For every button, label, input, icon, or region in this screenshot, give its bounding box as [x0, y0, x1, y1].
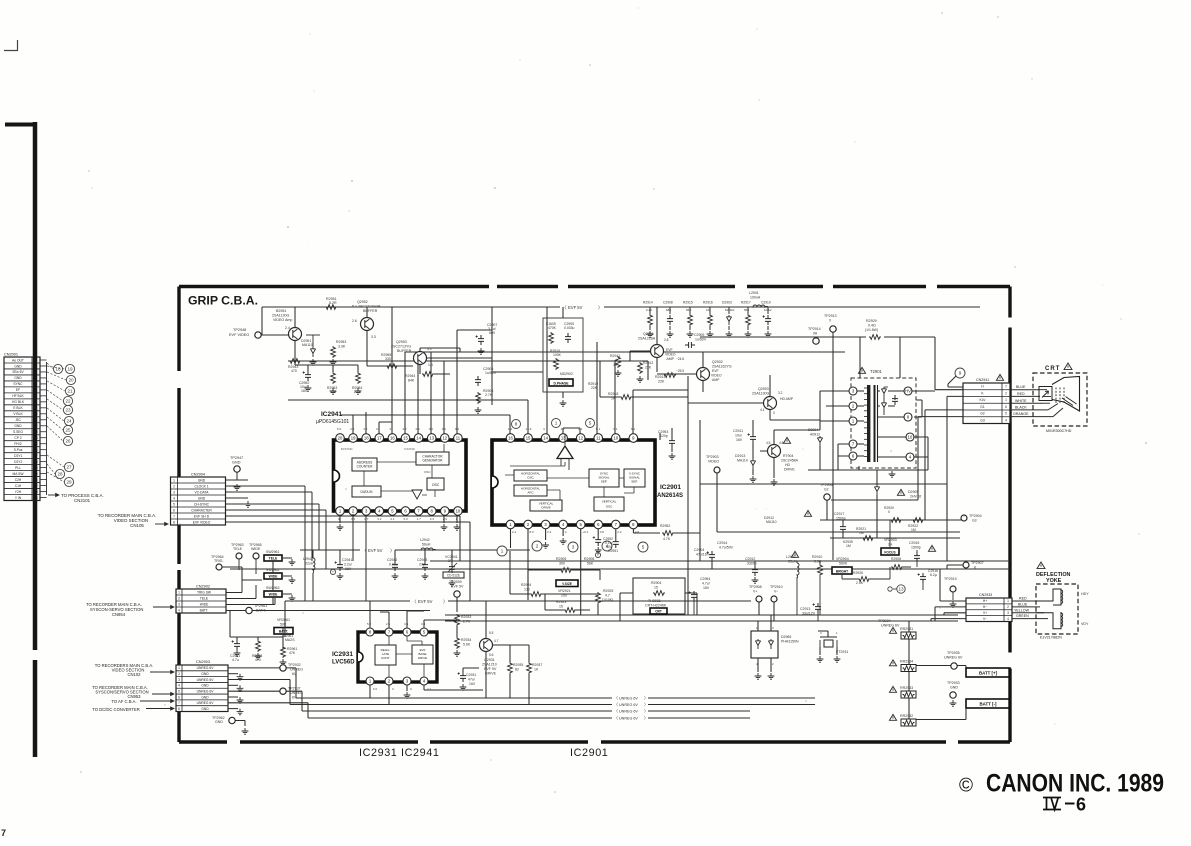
svg-text:UNREG 6V: UNREG 6V — [619, 697, 638, 701]
svg-text:BATT.: BATT. — [279, 629, 289, 633]
resistor R2952 4.7K — [662, 531, 674, 536]
svg-text:5.0: 5.0 — [404, 517, 409, 521]
CRT wire BLACK — [1010, 409, 1048, 411]
ground — [337, 573, 344, 579]
IC2931 bottom pin 2 — [385, 677, 393, 685]
wire — [456, 626, 458, 637]
sheet number IV-6 — [1043, 798, 1061, 810]
svg-text:19: 19 — [351, 436, 356, 441]
svg-text:S.Pos: S.Pos — [14, 448, 23, 452]
svg-text:〉: 〉 — [644, 709, 648, 714]
svg-text:GND: GND — [215, 720, 223, 724]
svg-text:〉: 〉 — [644, 702, 648, 707]
svg-text:GENERATOR: GENERATOR — [423, 459, 444, 463]
svg-text:20: 20 — [338, 436, 343, 441]
svg-text:22K: 22K — [591, 386, 598, 390]
wire RR chain — [909, 621, 966, 720]
svg-text:R2929: R2929 — [866, 319, 877, 323]
wire — [294, 307, 296, 328]
wire IC2941 pin3 drop — [365, 515, 367, 601]
capacitor C2908 — [669, 307, 671, 314]
svg-text:DRIVE: DRIVE — [485, 672, 497, 676]
svg-text:RED: RED — [1017, 392, 1025, 396]
svg-text:1M: 1M — [911, 528, 916, 532]
svg-text:R2918: R2918 — [608, 392, 618, 396]
svg-text:CSY1: CSY1 — [14, 454, 23, 458]
warning triangle — [791, 551, 798, 557]
wire — [717, 473, 960, 532]
svg-text:FT2931: FT2931 — [836, 650, 848, 654]
wire GND stub — [228, 696, 238, 698]
IC2931 top pin 6 — [403, 628, 411, 636]
IC2941 package outline — [334, 440, 467, 511]
svg-text:MA SW: MA SW — [13, 472, 25, 476]
ground — [237, 685, 244, 691]
warning triangle — [928, 545, 935, 551]
wire CN2941 feeds — [831, 396, 963, 561]
svg-text:4.1: 4.1 — [760, 408, 765, 412]
svg-text:24: 24 — [66, 419, 72, 424]
IC2941 pin 13 — [427, 434, 436, 443]
bus UNREG 6V lines — [296, 697, 815, 699]
svg-text:1: 1 — [178, 590, 180, 594]
thermistor TH2931 CRT-H2246K — [633, 578, 685, 614]
wire HV line — [700, 337, 935, 386]
svg-text:EVF SH D: EVF SH D — [194, 514, 210, 518]
svg-text:CN102: CN102 — [127, 672, 141, 677]
IC2941 pin 5 — [388, 507, 397, 516]
ground — [752, 577, 759, 583]
wire transformer HV output — [912, 386, 963, 391]
IC2941 pin 18 — [362, 434, 371, 443]
wire vertical x712 — [711, 561, 713, 569]
svg-text:10u/: 10u/ — [735, 434, 742, 438]
transformer T2901 outline — [851, 378, 916, 468]
svg-text:R2908: R2908 — [891, 557, 901, 561]
svg-text:2.7: 2.7 — [403, 427, 408, 431]
svg-text:2SC2458A: 2SC2458A — [781, 459, 799, 463]
svg-text:IC2901: IC2901 — [660, 484, 681, 491]
svg-text:µPD6145G101: µPD6145G101 — [316, 419, 349, 425]
svg-text:DRIVE: DRIVE — [541, 506, 550, 510]
svg-text:TP2919: TP2919 — [944, 577, 957, 581]
svg-text:3.4: 3.4 — [404, 622, 409, 626]
wire — [947, 565, 963, 569]
IC2901 block HORIZONTAL AFC — [514, 485, 547, 496]
wire UNREG row 3 — [228, 680, 290, 705]
wire CN2933 feeds — [931, 569, 966, 621]
transformer secondary diodes — [881, 387, 886, 397]
wire vertical x700 — [699, 420, 701, 561]
ground — [647, 331, 654, 337]
IC2941 pin 3 — [362, 507, 371, 516]
wire — [238, 559, 240, 570]
capacitor C2952 10u 16V — [305, 371, 311, 381]
svg-text:BATT [+]: BATT [+] — [979, 671, 998, 676]
svg-text:0.1: 0.1 — [416, 427, 421, 431]
wire vertical x600 — [599, 361, 601, 397]
wire transformer left feeds — [820, 391, 849, 470]
svg-text:VIDEO: VIDEO — [708, 460, 719, 464]
svg-text:Y IN: Y IN — [15, 496, 22, 500]
svg-text:TP2937: TP2937 — [288, 687, 301, 691]
svg-text:23: 23 — [65, 408, 71, 413]
svg-text:50V: 50V — [489, 331, 496, 335]
svg-text:CN2904: CN2904 — [191, 473, 205, 477]
svg-text:100uH: 100uH — [750, 296, 761, 300]
ground — [667, 331, 674, 337]
svg-text:TO DC/DC CONVERTER: TO DC/DC CONVERTER — [92, 707, 140, 712]
IC2901 bottom pin 3 — [541, 520, 550, 529]
IC2901 top pin 14 — [541, 434, 550, 443]
svg-text:C2912: C2912 — [745, 557, 755, 561]
CRT wire WHITE — [1010, 402, 1043, 404]
IC2901 top pin 16 — [506, 434, 515, 443]
IC2941 block DATA IN — [352, 486, 381, 497]
svg-text:22K: 22K — [645, 366, 652, 370]
svg-text:GND: GND — [232, 461, 241, 465]
svg-text:8: 8 — [178, 707, 180, 711]
ground — [765, 331, 772, 337]
IC2901 sync amp triangle — [557, 446, 573, 459]
svg-text:2.7K: 2.7K — [485, 393, 493, 397]
svg-text:5: 5 — [1005, 412, 1007, 416]
IC2941 buffer triangle — [412, 490, 422, 499]
IC2931 top pin 8 — [366, 628, 374, 636]
svg-text:16V: 16V — [736, 438, 743, 442]
IC2901 block VERTICAL DRIVE — [530, 500, 562, 511]
switch wiring — [272, 561, 274, 605]
svg-text:〈: 〈 — [412, 599, 417, 604]
svg-text:VC-DATA: VC-DATA — [195, 490, 210, 494]
annotation bubble 5 — [586, 419, 595, 428]
svg-text:CHARACTER: CHARACTER — [191, 508, 212, 512]
left margin bar — [5, 123, 37, 127]
svg-text:2SA1226A: 2SA1226A — [638, 337, 656, 341]
ground — [460, 684, 467, 690]
svg-text:PH/2: PH/2 — [14, 442, 21, 446]
svg-text:D2905: D2905 — [908, 490, 918, 494]
svg-text:1: 1 — [1007, 599, 1009, 603]
wire — [817, 613, 819, 621]
svg-text:EVF VIDEO: EVF VIDEO — [229, 333, 249, 337]
wire — [820, 446, 838, 470]
svg-text:6: 6 — [178, 695, 180, 699]
resistor R2954 2.7K — [356, 372, 361, 384]
svg-text:MA2S: MA2S — [285, 638, 295, 642]
wire — [340, 550, 452, 563]
yoke wire GREEN — [1012, 618, 1048, 620]
svg-text:300: 300 — [559, 562, 565, 566]
svg-text:UNREG 6V: UNREG 6V — [881, 624, 900, 628]
warning triangle — [1064, 363, 1072, 370]
svg-text:CN2941: CN2941 — [976, 378, 989, 382]
annotation bubble 1 — [497, 546, 507, 556]
transformer pin 9 — [904, 413, 912, 421]
svg-text:UNREG 6V: UNREG 6V — [619, 717, 638, 721]
svg-text:13: 13 — [898, 587, 904, 592]
svg-text:CN105: CN105 — [130, 523, 144, 528]
transformer pin 7 — [849, 440, 857, 448]
wire CHARACTER drop — [325, 510, 327, 569]
annotation bubble 8 — [512, 420, 521, 429]
svg-text:VIDEO Amp: VIDEO Amp — [273, 318, 292, 322]
svg-text:R2934: R2934 — [461, 638, 471, 642]
wire UNREG row 1 — [228, 668, 296, 698]
svg-text:22uH: 22uH — [305, 562, 314, 566]
svg-text:5: 5 — [178, 689, 180, 693]
svg-text:0.1: 0.1 — [442, 427, 447, 431]
svg-text:G3: G3 — [972, 519, 977, 523]
svg-text:BATT [-]: BATT [-] — [980, 702, 998, 707]
ground — [454, 650, 461, 656]
warning triangle — [804, 510, 811, 516]
svg-text:MA110: MA110 — [737, 459, 748, 463]
wire — [952, 592, 954, 600]
svg-text:84K: 84K — [408, 379, 415, 383]
IC2901 bottom pin 6 — [594, 520, 603, 529]
svg-text:2.8: 2.8 — [664, 338, 669, 342]
test point TP2961 BATT — [246, 607, 252, 613]
svg-text:11: 11 — [456, 436, 461, 441]
IC2931 top pin 5 — [420, 628, 428, 636]
ground — [245, 501, 252, 507]
svg-text:R2952: R2952 — [660, 524, 670, 528]
wire rail y372 — [492, 371, 543, 373]
transistor Q2931 2SA1210 EVF 5V DRIVE — [480, 639, 493, 652]
svg-text:TP2914: TP2914 — [808, 327, 821, 331]
svg-text:12: 12 — [442, 436, 447, 441]
svg-text:C2904: C2904 — [694, 548, 704, 552]
wire y484 rail — [700, 484, 947, 520]
IC2941 block CHARACTER GENERATOR — [416, 452, 449, 465]
svg-text:S.SEO: S.SEO — [13, 430, 24, 434]
svg-text:5: 5 — [173, 502, 175, 506]
svg-text:VR2904: VR2904 — [836, 557, 849, 561]
svg-text:〈: 〈 — [614, 716, 618, 721]
wire IC2941 bottom pin drops — [340, 514, 457, 523]
ground — [595, 547, 602, 553]
svg-text:10: 10 — [908, 435, 913, 440]
svg-text:2: 2 — [1007, 605, 1009, 609]
wire vertical x262 — [261, 307, 263, 335]
svg-text:〉: 〉 — [443, 599, 448, 604]
CRT electron gun — [1039, 387, 1052, 401]
ground — [834, 656, 841, 662]
IC2941 pin 2 — [349, 507, 358, 516]
IC2931 bottom pin 3 — [403, 677, 411, 685]
svg-text:100K: 100K — [553, 353, 562, 357]
wire — [693, 601, 695, 615]
svg-text:2.7: 2.7 — [561, 427, 566, 431]
svg-text:6.2µ: 6.2µ — [930, 573, 937, 577]
svg-text:0: 0 — [888, 510, 890, 514]
wire rail y352 — [405, 351, 845, 353]
svg-text:R2937: R2937 — [532, 663, 542, 667]
svg-text:GND: GND — [201, 707, 209, 711]
svg-text:15: 15 — [403, 436, 408, 441]
resistor R2933 2.7K — [455, 614, 460, 626]
capacitor C2942 0.01u — [392, 561, 398, 571]
svg-text:27p: 27p — [419, 563, 425, 567]
svg-text:HG BLK: HG BLK — [12, 400, 25, 404]
svg-text:C2914: C2914 — [717, 541, 727, 545]
svg-text:26: 26 — [65, 439, 71, 444]
svg-text:LVC56D: LVC56D — [332, 660, 355, 666]
svg-text:2: 2 — [178, 596, 180, 600]
svg-text:4.3: 4.3 — [350, 427, 355, 431]
svg-text:YOKE: YOKE — [1046, 578, 1062, 584]
svg-text:3.3: 3.3 — [430, 517, 435, 521]
svg-text:15: 15 — [559, 605, 563, 609]
svg-text:GREEN: GREEN — [1016, 614, 1029, 618]
CN2904 row wires — [226, 479, 249, 481]
capacitor C2910 — [767, 307, 769, 314]
svg-text:4: 4 — [1007, 617, 1009, 621]
svg-text:UNREG 6V: UNREG 6V — [619, 703, 638, 707]
wire — [657, 352, 703, 392]
wire — [230, 611, 283, 650]
svg-text:〉: 〉 — [644, 696, 648, 701]
svg-text:3.2: 3.2 — [377, 517, 382, 521]
wire vertical x492 — [491, 307, 493, 405]
svg-text:C2911: C2911 — [733, 429, 743, 433]
ground — [726, 331, 733, 337]
svg-text:TP2908: TP2908 — [749, 585, 762, 589]
ground — [560, 400, 567, 406]
svg-text:V−: V− — [983, 617, 987, 621]
svg-text:YELLOW: YELLOW — [1014, 608, 1030, 612]
svg-text:3.3K: 3.3K — [338, 345, 346, 349]
svg-text:R2935: R2935 — [513, 663, 523, 667]
IC2931 package outline — [358, 632, 437, 682]
svg-text:©: © — [959, 776, 973, 797]
IC2931 internal wiring — [389, 636, 424, 677]
svg-text:V BLK: V BLK — [13, 412, 23, 416]
resistor R2911 1K — [616, 356, 621, 368]
svg-text:0: 0 — [773, 411, 775, 415]
note TO PROCESS C.B.A. — [48, 494, 59, 496]
wire — [830, 520, 960, 538]
svg-text:33uH: 33uH — [788, 560, 797, 564]
svg-text:VIDEO: VIDEO — [711, 374, 722, 378]
battery terminal BATT - — [966, 699, 1010, 708]
svg-text:GND: GND — [950, 686, 958, 690]
svg-text:V+: V+ — [983, 611, 987, 615]
svg-text:CH-SYNC: CH-SYNC — [194, 502, 210, 506]
wire — [832, 332, 834, 560]
svg-text:VR2921: VR2921 — [558, 589, 571, 593]
IC2901 top pin 13 — [559, 434, 568, 443]
ground — [687, 331, 694, 337]
svg-text:470: 470 — [255, 658, 261, 662]
wire IC2941 pin2 drop — [352, 515, 354, 561]
svg-text:28: 28 — [57, 472, 63, 477]
svg-text:Q2902: Q2902 — [712, 360, 723, 364]
svg-text:SEP.: SEP. — [601, 480, 608, 484]
svg-text:C2942: C2942 — [387, 558, 397, 562]
resistor R2934 5.6K — [455, 637, 460, 649]
svg-text:560: 560 — [744, 308, 749, 312]
potentiometer VR2921 250 V.SIZE — [556, 580, 578, 587]
IC2941 pin 9 — [441, 507, 450, 516]
left margin bar overlay — [33, 357, 38, 500]
svg-text:M.SYNC: M.SYNC — [341, 447, 354, 451]
IC2901 block HORIZONTAL OSC — [514, 470, 547, 481]
svg-text:5.0: 5.0 — [337, 427, 342, 431]
svg-text:W/DE: W/DE — [269, 592, 279, 596]
svg-text:1.2: 1.2 — [508, 427, 513, 431]
ground — [234, 484, 241, 490]
CRT wire RED — [1010, 395, 1040, 397]
svg-text:2.2K: 2.2K — [646, 308, 652, 312]
capacitor C2943 27p — [422, 561, 428, 571]
wire — [818, 631, 837, 655]
svg-text:4.7u/50V: 4.7u/50V — [719, 546, 734, 550]
svg-text:68p: 68p — [666, 308, 671, 312]
svg-text:R2925: R2925 — [603, 589, 613, 593]
svg-text:0A: 0A — [813, 332, 818, 336]
svg-text:WIDE: WIDE — [200, 602, 209, 606]
svg-text:WHITE: WHITE — [1015, 399, 1027, 403]
svg-text:1: 1 — [1005, 398, 1007, 402]
svg-text:4: 4 — [178, 684, 180, 688]
svg-text:DRIVE: DRIVE — [418, 656, 427, 660]
svg-text:G2: G2 — [824, 488, 829, 492]
svg-text:SW2961: SW2961 — [266, 550, 279, 554]
svg-text:2.4: 2.4 — [285, 326, 290, 330]
ground — [542, 542, 549, 548]
svg-text:UNREG 6V: UNREG 6V — [619, 710, 638, 714]
svg-text:TELE: TELE — [269, 556, 278, 560]
svg-text:7: 7 — [173, 514, 175, 518]
svg-text:CRT: CRT — [1045, 366, 1060, 372]
ground — [750, 476, 757, 482]
svg-text:470: 470 — [291, 369, 297, 373]
svg-text:OSC: OSC — [424, 470, 431, 474]
svg-text:1u/50V: 1u/50V — [695, 338, 707, 342]
svg-text:1: 1 — [173, 478, 175, 482]
photocoupler D2965 — [751, 631, 778, 658]
svg-text:GND: GND — [198, 496, 206, 500]
IC2941 pin 19 — [349, 434, 358, 443]
svg-text:1: 1 — [501, 549, 504, 554]
svg-text:9: 9 — [959, 371, 962, 376]
svg-text:〉: 〉 — [644, 716, 648, 721]
wire — [510, 551, 598, 615]
svg-text:CSY2: CSY2 — [14, 460, 23, 464]
transformer pin 2 — [849, 402, 857, 410]
yoke wire YELLOW — [1012, 612, 1044, 614]
svg-text:R2910: R2910 — [812, 555, 822, 559]
svg-text:V−: V− — [774, 590, 778, 594]
svg-text:R2914: R2914 — [643, 301, 653, 305]
svg-text:V+: V+ — [753, 590, 757, 594]
CRT funnel — [1052, 377, 1080, 412]
resistor R2915 — [689, 307, 691, 314]
svg-text:TP2933: TP2933 — [947, 681, 960, 685]
svg-text:C1H: C1H — [15, 484, 22, 488]
ground — [330, 359, 337, 365]
svg-text:6: 6 — [1076, 795, 1086, 815]
svg-text:4.2: 4.2 — [363, 427, 368, 431]
svg-text:A0912: A0912 — [810, 433, 820, 437]
svg-text:4.7K: 4.7K — [663, 537, 671, 541]
svg-text:CN2101: CN2101 — [74, 498, 91, 503]
transformer pin 10 — [906, 433, 914, 441]
svg-text:TP2935: TP2935 — [947, 651, 960, 655]
wire UNREG row 5 — [228, 691, 302, 711]
